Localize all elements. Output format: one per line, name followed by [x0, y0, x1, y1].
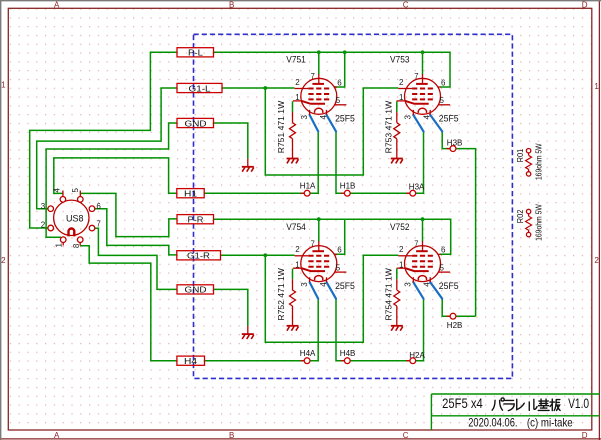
svg-text:V753: V753 [390, 55, 410, 66]
svg-text:1: 1 [55, 243, 64, 248]
svg-text:R752 471 1W: R752 471 1W [277, 268, 286, 321]
svg-text:H1A: H1A [300, 180, 316, 190]
svg-text:25F5: 25F5 [335, 114, 355, 125]
svg-text:8: 8 [72, 243, 81, 248]
svg-text:B: B [229, 431, 234, 440]
svg-text:D: D [582, 431, 588, 440]
svg-text:C: C [403, 431, 409, 440]
svg-text:169ohm 5W: 169ohm 5W [534, 204, 543, 241]
svg-text:5: 5 [71, 188, 80, 193]
svg-text:GND: GND [185, 285, 207, 295]
svg-text:2: 2 [594, 256, 599, 265]
svg-text:GND: GND [185, 118, 207, 128]
svg-text:4: 4 [53, 188, 62, 193]
svg-text:R751 471 1W: R751 471 1W [277, 100, 286, 153]
svg-text:G1-R: G1-R [187, 251, 210, 261]
svg-text:1: 1 [1, 81, 6, 90]
svg-text:US8: US8 [66, 213, 84, 223]
svg-text:V751: V751 [286, 55, 306, 66]
svg-text:2: 2 [1, 256, 6, 265]
svg-text:D: D [582, 0, 588, 9]
svg-text:25F5: 25F5 [439, 281, 459, 292]
svg-text:R02: R02 [516, 209, 525, 223]
svg-text:B: B [229, 0, 234, 9]
svg-text:H4: H4 [184, 356, 197, 366]
svg-text:R753 471 1W: R753 471 1W [384, 100, 393, 153]
svg-text:V1.0: V1.0 [568, 395, 589, 411]
svg-text:2: 2 [41, 220, 46, 229]
svg-text:1: 1 [594, 82, 599, 91]
svg-text:7: 7 [96, 220, 101, 229]
svg-text:V754: V754 [286, 222, 306, 233]
svg-text:25F5 x4: 25F5 x4 [442, 395, 483, 411]
svg-text:H1: H1 [184, 189, 197, 199]
svg-text:H3A: H3A [409, 182, 425, 192]
svg-text:2020.04.06.: 2020.04.06. [468, 416, 517, 430]
svg-text:A: A [54, 0, 60, 9]
svg-text:R754 471 1W: R754 471 1W [384, 268, 393, 321]
svg-text:H3B: H3B [447, 137, 463, 147]
svg-text:P-L: P-L [188, 48, 203, 58]
svg-text:25F5: 25F5 [335, 281, 355, 292]
svg-text:A: A [54, 431, 60, 440]
svg-text:H4A: H4A [300, 348, 316, 358]
svg-text:(c) mi-take: (c) mi-take [527, 416, 573, 430]
svg-text:C: C [403, 0, 409, 9]
svg-text:P-R: P-R [188, 215, 204, 225]
svg-text:25F5: 25F5 [439, 114, 459, 125]
svg-text:G1-L: G1-L [189, 83, 211, 93]
svg-text:H4B: H4B [340, 348, 356, 358]
svg-text:3: 3 [41, 202, 46, 211]
svg-text:169ohm 5W: 169ohm 5W [534, 143, 543, 180]
svg-text:H2B: H2B [447, 320, 463, 330]
svg-text:V752: V752 [390, 222, 410, 233]
svg-text:R01: R01 [516, 148, 525, 162]
svg-text:H1B: H1B [340, 180, 356, 190]
svg-text:6: 6 [96, 202, 101, 211]
svg-text:H2A: H2A [409, 350, 425, 360]
